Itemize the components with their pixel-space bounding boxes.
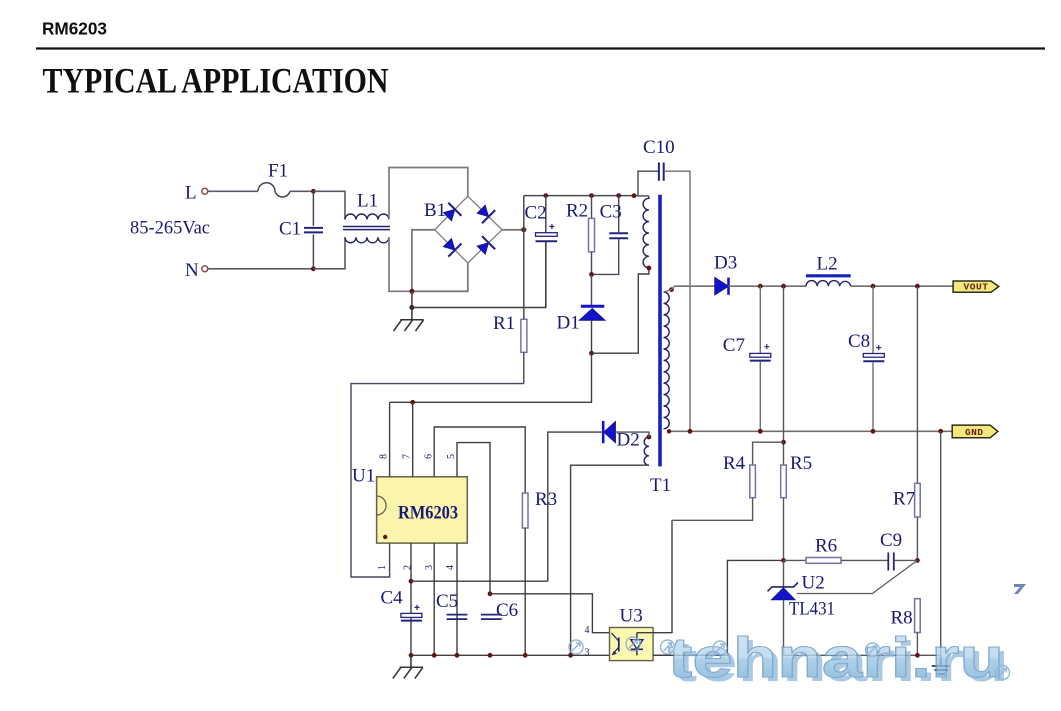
wire C10 right to gnd rail (664, 171, 690, 431)
inductor L1 top winding (345, 214, 389, 220)
svg-text:GND: GND (965, 427, 983, 438)
wire pin 2 down (410, 543, 412, 655)
wire pin 7 (412, 402, 414, 477)
capacitor C2 (electrolytic) (536, 196, 558, 242)
node DC+ (521, 227, 526, 232)
node pin2 VDD (409, 579, 414, 584)
chassis ground (rail) (393, 655, 423, 678)
wire secondary to D3 (675, 285, 715, 287)
svg-text:3: 3 (424, 565, 435, 570)
wire to L1 top (313, 191, 345, 219)
svg-text:4: 4 (585, 625, 590, 636)
node L-C1 (311, 189, 316, 194)
node drain (589, 351, 594, 356)
GND rail (669, 430, 952, 432)
svg-text:B1: B1 (424, 200, 446, 221)
bottom rail (primary gnd) (411, 654, 727, 656)
wire D2 cathode to VDD net (548, 432, 603, 581)
inductor L2 winding (806, 281, 851, 287)
svg-text:2: 2 (403, 565, 414, 570)
svg-text:F1: F1 (268, 161, 288, 182)
node rail C6 (488, 653, 493, 658)
svg-text:tehnari.ru: tehnari.ru (668, 626, 1004, 690)
node R4 tap (781, 440, 786, 445)
svg-text:C4: C4 (381, 588, 404, 609)
capacitor C8 (electrolytic) (863, 286, 884, 431)
capacitor C3 (592, 196, 629, 275)
DC+ vertical to top rail and R1 (523, 196, 525, 320)
optocoupler U3 (610, 628, 654, 661)
node rail R3 (523, 653, 528, 658)
diode D3 (715, 278, 729, 295)
wire rail to primary top (638, 195, 649, 197)
bridge B1 diamond (435, 196, 502, 263)
svg-text:U2: U2 (802, 573, 825, 594)
diode D1 (579, 306, 605, 320)
wire U3 led cathode out (653, 560, 783, 655)
wire to D1 (591, 274, 593, 306)
wire bridge bottom corner (412, 263, 468, 291)
node primary bottom (647, 266, 652, 271)
svg-text:R7: R7 (893, 489, 915, 510)
wire D2 anode to aux winding (615, 432, 649, 437)
svg-text:C1: C1 (279, 219, 301, 240)
node rail C5 (455, 653, 460, 658)
resistor R4 (672, 442, 784, 520)
svg-text:C3: C3 (600, 201, 622, 222)
svg-text:85-265Vac: 85-265Vac (130, 218, 210, 239)
VOUT flag (953, 281, 999, 293)
earth ground (932, 655, 950, 674)
svg-text:U3: U3 (620, 605, 643, 626)
capacitor C9 (888, 553, 917, 571)
wire pin 3 down (433, 543, 435, 655)
VOUT rail (729, 285, 954, 287)
svg-text:D3: D3 (714, 253, 737, 274)
node rail T1 (632, 193, 637, 198)
wire D1 anode down (591, 320, 593, 353)
terminal N (202, 266, 208, 272)
svg-text:C6: C6 (496, 600, 518, 621)
L1 core (343, 227, 390, 230)
diode D2 (603, 421, 615, 443)
wire L to fuse (208, 190, 258, 192)
resistor R5 (781, 465, 787, 560)
svg-text:C10: C10 (643, 137, 675, 158)
watermark tehnari.ru (569, 584, 1026, 694)
node divider mid (915, 558, 920, 563)
svg-text:R6: R6 (815, 536, 837, 557)
svg-text:1: 1 (377, 565, 388, 570)
svg-text:TYPICAL APPLICATION: TYPICAL APPLICATION (43, 61, 389, 101)
svg-text:3: 3 (585, 647, 590, 658)
node secondary top (669, 287, 674, 292)
top rail (524, 195, 638, 197)
op chip U1 RM6203 (377, 477, 468, 543)
capacitor C5 (447, 615, 468, 620)
svg-text:5: 5 (446, 454, 457, 459)
wire VDD net (411, 580, 548, 582)
node R8 bottom (915, 653, 920, 658)
header rule (36, 47, 1045, 49)
resistor R1 (521, 319, 527, 383)
node rail pin3 (432, 653, 437, 658)
wire bridge left corner (412, 230, 435, 291)
wire L1 to bridge top (389, 168, 468, 220)
fuse F1 (258, 183, 290, 197)
wire R3 bottom to rail (524, 528, 526, 655)
wire drain to primary bottom (592, 268, 649, 353)
svg-text:L: L (185, 183, 197, 204)
node rail C3 (616, 193, 621, 198)
wire L1 bottom down (389, 237, 412, 291)
node C8 top (871, 284, 876, 289)
svg-text:C2: C2 (525, 202, 547, 223)
resistor R3 (522, 493, 528, 528)
node rail aux (568, 653, 573, 658)
node bridge bottom (409, 289, 414, 294)
divider R4 R5 vertical (783, 286, 785, 465)
wire fuse to C1 node (290, 190, 313, 192)
node gnd earth branch (938, 429, 943, 434)
wire secondary top lead (664, 286, 675, 292)
bridge diode upper-right (475, 203, 496, 224)
wire pin 5 to feedback (457, 443, 490, 594)
svg-text:D1: D1 (557, 313, 580, 334)
bridge diode upper-left (441, 203, 462, 224)
resistor R8 (915, 599, 921, 656)
wire bridge right corner (502, 229, 524, 231)
wire C1 top (312, 191, 314, 226)
stub to DC- rail (411, 291, 413, 307)
GND flag (952, 425, 998, 438)
node rail C4 (409, 653, 414, 658)
svg-text:T1: T1 (650, 475, 671, 496)
wire rail to C10 (638, 171, 659, 195)
wire earth branch (940, 431, 942, 655)
wire drain to pins 7,8 (390, 353, 592, 402)
node C6 feedback (488, 591, 493, 596)
wire to L1 bottom (313, 237, 345, 268)
svg-text:R4: R4 (723, 453, 746, 474)
DC- rail to C2 (412, 242, 546, 308)
wire C1 bottom (312, 235, 314, 269)
svg-text:N: N (185, 260, 199, 281)
inductor L1 bottom winding (345, 237, 389, 243)
node rail R2 (589, 193, 594, 198)
T1 primary winding (643, 196, 649, 268)
wire U3 collector out (653, 520, 672, 632)
transformer T1 core (658, 195, 662, 467)
node R4R5 branch top (781, 284, 786, 289)
capacitor C1 (304, 228, 323, 233)
node gnd secondary (667, 429, 671, 433)
node aux top (647, 435, 652, 440)
node rail C2 (543, 193, 548, 198)
svg-text:C5: C5 (436, 591, 458, 612)
svg-text:L2: L2 (817, 253, 838, 274)
node gnd C7 (758, 429, 763, 434)
wire pin 8 (389, 402, 391, 477)
node DC- rail (409, 305, 414, 310)
node pin7 (410, 400, 415, 405)
svg-text:6: 6 (424, 454, 435, 459)
terminal L (202, 188, 208, 194)
svg-text:VOUT: VOUT (964, 282, 989, 293)
wire C6 node to U3 pin4 (490, 594, 610, 633)
wire pin 6 to R3 (434, 427, 525, 493)
wire N line (208, 268, 313, 270)
inductor L2 core (806, 274, 851, 277)
svg-text:U1: U1 (352, 466, 375, 487)
T1 auxiliary winding (644, 437, 649, 465)
wire aux bottom (571, 465, 649, 655)
node N-C1 (311, 266, 316, 271)
svg-text:RM6203: RM6203 (42, 19, 107, 39)
wire R1 to pin1 (351, 384, 524, 577)
node C7 top (758, 284, 763, 289)
secondary gnd bottom rail (784, 654, 941, 656)
svg-text:8: 8 (379, 454, 390, 459)
svg-text:C8: C8 (848, 331, 870, 352)
svg-text:RM6203: RM6203 (398, 502, 458, 523)
svg-text:TL431: TL431 (789, 599, 835, 620)
wire pin 4 down (456, 543, 458, 655)
capacitor C10 (659, 163, 664, 181)
node R2-C3-D1 (589, 272, 594, 277)
svg-text:C7: C7 (723, 335, 745, 356)
resistor R7 (915, 286, 921, 560)
svg-text:C9: C9 (880, 530, 902, 551)
svg-text:R1: R1 (493, 313, 515, 334)
svg-text:7: 7 (402, 454, 413, 459)
svg-text:L1: L1 (357, 191, 378, 212)
capacitor C6 (481, 615, 502, 620)
resistor R2 (589, 196, 595, 275)
node TL431 cathode (781, 558, 786, 563)
svg-text:4: 4 (445, 565, 456, 570)
node R7 branch top (915, 284, 920, 289)
chassis ground (bridge) (394, 308, 424, 332)
capacitor C7 (electrolytic) (750, 286, 771, 431)
capacitor C4 (electrolytic) (401, 605, 422, 621)
svg-text:R2: R2 (566, 200, 588, 221)
node gnd C8 (871, 429, 876, 434)
svg-text:R3: R3 (535, 489, 557, 510)
svg-text:R5: R5 (790, 453, 812, 474)
shunt regulator U2 TL431 (768, 560, 799, 655)
bridge diode lower-right (475, 236, 496, 257)
node gnd C10 (688, 429, 693, 434)
wire TL431 ref (797, 560, 917, 593)
bridge diode lower-left (441, 236, 462, 257)
T1 secondary winding (664, 292, 670, 429)
resistor R6 (784, 558, 889, 564)
